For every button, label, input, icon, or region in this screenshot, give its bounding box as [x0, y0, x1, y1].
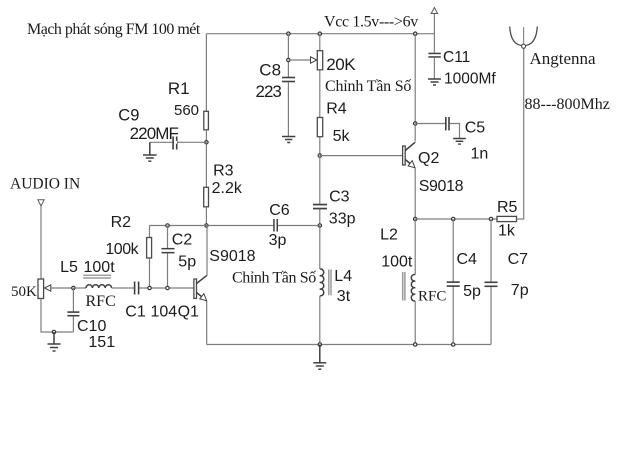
node 20K top	[318, 32, 321, 35]
svg-text:5k: 5k	[333, 128, 351, 145]
wiper arrow 50K	[48, 287, 73, 289]
capacitor C10	[67, 288, 115, 351]
svg-text:RFC: RFC	[418, 289, 446, 305]
node Q2 emitter rail junction	[414, 217, 417, 220]
svg-text:L4: L4	[334, 268, 352, 285]
svg-text:R1: R1	[168, 79, 190, 98]
wire R1 column top	[205, 34, 207, 112]
node C4 top	[452, 217, 455, 220]
node R2 bottom tap	[148, 286, 151, 289]
svg-text:S9018: S9018	[209, 248, 255, 265]
capacitor C6	[269, 202, 320, 249]
node C2 bottom tap	[166, 286, 169, 289]
wire L4 bottom	[319, 296, 321, 345]
ground at 50K/C10	[48, 332, 61, 351]
wire R1 bottom to node	[205, 130, 207, 143]
wire bottom ground rail	[207, 344, 491, 346]
svg-text:100t: 100t	[381, 254, 413, 271]
potentiometer 50K	[38, 279, 44, 299]
svg-text:C9: C9	[118, 107, 139, 125]
svg-text:104: 104	[151, 304, 178, 321]
svg-text:50K: 50K	[11, 284, 37, 300]
svg-text:AUDIO IN: AUDIO IN	[10, 176, 80, 193]
wire base bias line y=225	[150, 225, 275, 227]
node C2 tap	[166, 224, 169, 227]
svg-text:C6: C6	[269, 202, 290, 219]
wire C8 top	[287, 34, 289, 77]
resistor R2	[147, 238, 152, 259]
wire pot bottom	[41, 299, 73, 333]
svg-text:Chỉnh Tần Số: Chỉnh Tần Số	[232, 270, 316, 287]
node C7 top	[489, 217, 492, 220]
wire R4 bottom to base node	[319, 137, 321, 156]
wire Q1 emitter down	[206, 301, 208, 345]
svg-text:Q2: Q2	[418, 150, 439, 167]
capacitor C2	[162, 226, 197, 288]
wire C8 to ground	[287, 82, 289, 136]
resistor R3	[204, 187, 209, 207]
capacitor C8	[256, 61, 296, 102]
wire 20K bottom to R4	[319, 70, 321, 118]
svg-text:Q1: Q1	[178, 304, 199, 321]
wire R2 bottom	[149, 258, 151, 288]
wire C9 branch	[150, 141, 207, 143]
svg-text:R4: R4	[326, 100, 347, 117]
wire Q2 collector column from Vcc	[414, 32, 417, 35]
svg-text:C8: C8	[259, 61, 281, 80]
ground at C5	[453, 139, 466, 145]
wiper arrowhead 50K	[45, 285, 51, 291]
svg-text:88---800Mhz: 88---800Mhz	[525, 96, 610, 113]
svg-text:C5: C5	[465, 120, 486, 137]
ground at C9	[143, 142, 157, 161]
resistor R5	[497, 216, 517, 221]
svg-text:33p: 33p	[329, 210, 356, 227]
capacitor C4	[447, 219, 481, 345]
svg-text:C7: C7	[508, 251, 529, 268]
svg-text:Vcc 1.5v--->6v: Vcc 1.5v--->6v	[324, 14, 418, 31]
ground at C8	[282, 137, 295, 143]
wire L5 to C1	[112, 287, 134, 289]
node R3/Q1 collector/C6 junction	[205, 224, 208, 227]
wire R5 to antenna line	[517, 46, 524, 219]
wire 20K top	[319, 34, 321, 51]
inductor L5	[60, 259, 116, 310]
node C5 tap	[414, 122, 417, 125]
svg-text:C1: C1	[125, 304, 146, 321]
svg-text:5p: 5p	[463, 283, 481, 300]
wire Q2 base	[320, 155, 403, 157]
resistor R1	[204, 111, 209, 130]
capacitor C3	[313, 188, 356, 227]
svg-text:R5: R5	[497, 199, 518, 216]
svg-text:1k: 1k	[498, 223, 516, 240]
transistor Q1	[178, 248, 256, 321]
svg-text:RFC: RFC	[86, 293, 116, 310]
wire Vcc rail	[206, 33, 434, 35]
node C6/C3/L4 junction	[318, 224, 321, 227]
node wiper/C10 junction	[72, 286, 75, 289]
svg-text:2.2k: 2.2k	[212, 180, 243, 197]
svg-text:5p: 5p	[178, 253, 196, 270]
node C4 bottom	[452, 343, 455, 346]
wire R3 bottom	[205, 207, 207, 226]
svg-text:100k: 100k	[105, 241, 139, 258]
ground at C11	[428, 79, 441, 85]
ground at bottom rail	[313, 345, 326, 370]
resistor R4	[317, 118, 322, 137]
wire emitter rail	[415, 218, 497, 220]
capacitor C1	[125, 282, 177, 321]
antenna	[510, 27, 610, 114]
wire input to pot	[40, 206, 42, 279]
node L4 bottom	[318, 343, 321, 346]
wire R3 column	[205, 142, 207, 187]
svg-text:3t: 3t	[337, 288, 351, 305]
wire C3 bottom	[319, 209, 321, 225]
svg-text:220MF: 220MF	[130, 124, 179, 143]
wire Q1 collector up	[206, 226, 208, 276]
svg-text:Angtenna: Angtenna	[530, 49, 597, 68]
svg-text:151: 151	[88, 334, 115, 351]
svg-text:3p: 3p	[269, 232, 287, 249]
inductor L4	[320, 269, 331, 296]
node Q2 base junction	[318, 154, 321, 157]
svg-text:Chỉnh Tần Số: Chỉnh Tần Số	[325, 78, 411, 95]
svg-text:560: 560	[174, 102, 199, 119]
inductor L2	[380, 219, 446, 345]
svg-text:R3: R3	[213, 163, 234, 180]
node L2 bottom	[414, 343, 417, 346]
svg-text:L5: L5	[60, 259, 78, 276]
svg-text:C11: C11	[443, 49, 470, 66]
svg-text:1n: 1n	[471, 146, 489, 163]
wire C1 to Q1 base	[139, 287, 194, 289]
svg-text:223: 223	[256, 82, 282, 101]
wire to C3	[319, 156, 321, 204]
svg-text:100t: 100t	[84, 259, 116, 276]
svg-text:R2: R2	[111, 214, 132, 231]
svg-text:20K: 20K	[326, 55, 356, 74]
capacitor C9	[118, 107, 178, 150]
svg-text:C10: C10	[77, 318, 106, 335]
svg-text:Mạch phát sóng FM 100 mét: Mạch phát sóng FM 100 mét	[27, 21, 201, 38]
transistor Q2	[403, 124, 464, 196]
wire L4 top	[319, 226, 321, 270]
node R1/R3/C9 junction	[205, 141, 208, 144]
capacitor C7	[485, 219, 529, 345]
node C8 wiper tap	[287, 58, 290, 61]
svg-text:1000Mf: 1000Mf	[444, 71, 496, 88]
potentiometer 20K	[317, 51, 322, 70]
node ground tap	[52, 330, 55, 333]
wire Q2 emitter down	[414, 168, 416, 219]
svg-text:S9018: S9018	[419, 178, 464, 195]
svg-text:C3: C3	[329, 188, 350, 205]
svg-text:C4: C4	[457, 251, 478, 268]
wire wiper arrow to 20K pot	[288, 59, 313, 61]
svg-text:7p: 7p	[511, 282, 529, 299]
node C8 top	[287, 32, 290, 35]
wiper arrowhead 20K	[311, 57, 317, 63]
wire R2 drop	[149, 226, 151, 238]
svg-text:L2: L2	[380, 227, 398, 244]
capacitor C5	[415, 117, 488, 163]
capacitor C11 branch	[428, 8, 496, 88]
svg-text:C2: C2	[172, 232, 193, 249]
